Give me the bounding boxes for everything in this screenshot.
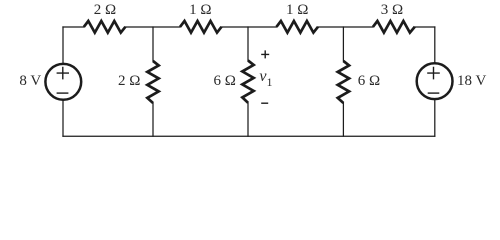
- svg-text:18 V: 18 V: [457, 73, 486, 89]
- svg-text:8 V: 8 V: [19, 73, 41, 89]
- svg-text:3 Ω: 3 Ω: [381, 2, 403, 18]
- svg-text:v1: v1: [259, 68, 272, 89]
- svg-text:2 Ω: 2 Ω: [94, 2, 116, 18]
- svg-text:1 Ω: 1 Ω: [286, 2, 308, 18]
- svg-text:2 Ω: 2 Ω: [118, 73, 140, 89]
- svg-text:6 Ω: 6 Ω: [358, 73, 380, 89]
- svg-text:6 Ω: 6 Ω: [213, 73, 235, 89]
- svg-text:1 Ω: 1 Ω: [189, 2, 211, 18]
